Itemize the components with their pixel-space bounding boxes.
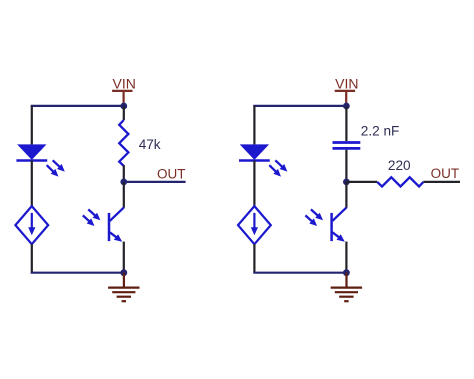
phototransistor collector stroke [110, 207, 124, 221]
wire top rail [31, 105, 124, 107]
current source arrow [31, 213, 33, 229]
current source arrow [253, 213, 255, 229]
wire lead collector [123, 182, 125, 208]
resistor R2 220 (zigzag) [377, 177, 423, 186]
phototransistor Q base bar [108, 213, 111, 241]
node OUT junction [120, 179, 127, 186]
LED emission arrow 2 [47, 165, 55, 173]
wire lead VIN to C1 [345, 106, 347, 141]
wire lead emitter [345, 242, 347, 273]
node VIN junction [120, 103, 127, 110]
node OUT junction [343, 179, 350, 186]
ground symbol [345, 273, 347, 287]
wire lead OUT node to R2 [346, 181, 377, 183]
LED cathode bar [16, 159, 47, 162]
svg-text:VIN: VIN [335, 76, 358, 92]
wire lead C1 to OUT node [345, 150, 347, 182]
current source I (diamond) [238, 206, 271, 244]
wire left branch middle [253, 161, 255, 207]
wire left branch middle [31, 161, 33, 207]
svg-text:2.2 nF: 2.2 nF [361, 124, 400, 139]
phototransistor emitter stroke with arrow [332, 232, 340, 238]
wire lead R1 to OUT node [123, 165, 125, 182]
photo arrow 1 [311, 209, 319, 216]
LED emission arrow 1 [275, 160, 283, 168]
LED cathode bar [239, 159, 270, 162]
photo arrow 1 [88, 209, 96, 216]
LED D (anode triangle) [240, 144, 269, 160]
wire bottom rail [31, 272, 124, 274]
svg-text:OUT: OUT [431, 166, 460, 181]
wire OUT net (left) [124, 181, 186, 183]
wire left branch lower [253, 244, 255, 273]
LED D (anode triangle) [17, 144, 46, 160]
resistor R1 47k (zigzag) [119, 120, 128, 166]
capacitor C1 plate bottom [333, 147, 361, 150]
LED emission arrow 2 [269, 165, 277, 173]
current source I (diamond) [15, 206, 48, 244]
wire left branch upper [31, 106, 33, 144]
wire lead VIN to R1 [123, 106, 125, 120]
wire lead R2 to OUT [423, 181, 460, 183]
wire left branch lower [31, 244, 33, 273]
node VIN junction [343, 103, 350, 110]
wire lead collector [345, 182, 347, 208]
node ground junction [343, 269, 350, 276]
svg-text:OUT: OUT [157, 167, 186, 182]
svg-text:VIN: VIN [113, 76, 136, 92]
node ground junction [120, 269, 127, 276]
wire top rail [253, 105, 346, 107]
LED emission arrow 1 [53, 160, 61, 168]
phototransistor emitter stroke with arrow [110, 232, 118, 238]
ground symbol [123, 273, 125, 287]
wire bottom rail [253, 272, 346, 274]
photo arrow 2 [305, 215, 313, 222]
wire left branch upper [253, 106, 255, 144]
svg-text:220: 220 [388, 158, 411, 173]
photo arrow 2 [83, 215, 91, 222]
wire lead emitter [123, 242, 125, 273]
capacitor C1 plate top [333, 141, 361, 144]
phototransistor Q base bar [330, 213, 333, 241]
svg-text:47k: 47k [139, 137, 161, 152]
phototransistor collector stroke [332, 207, 346, 221]
